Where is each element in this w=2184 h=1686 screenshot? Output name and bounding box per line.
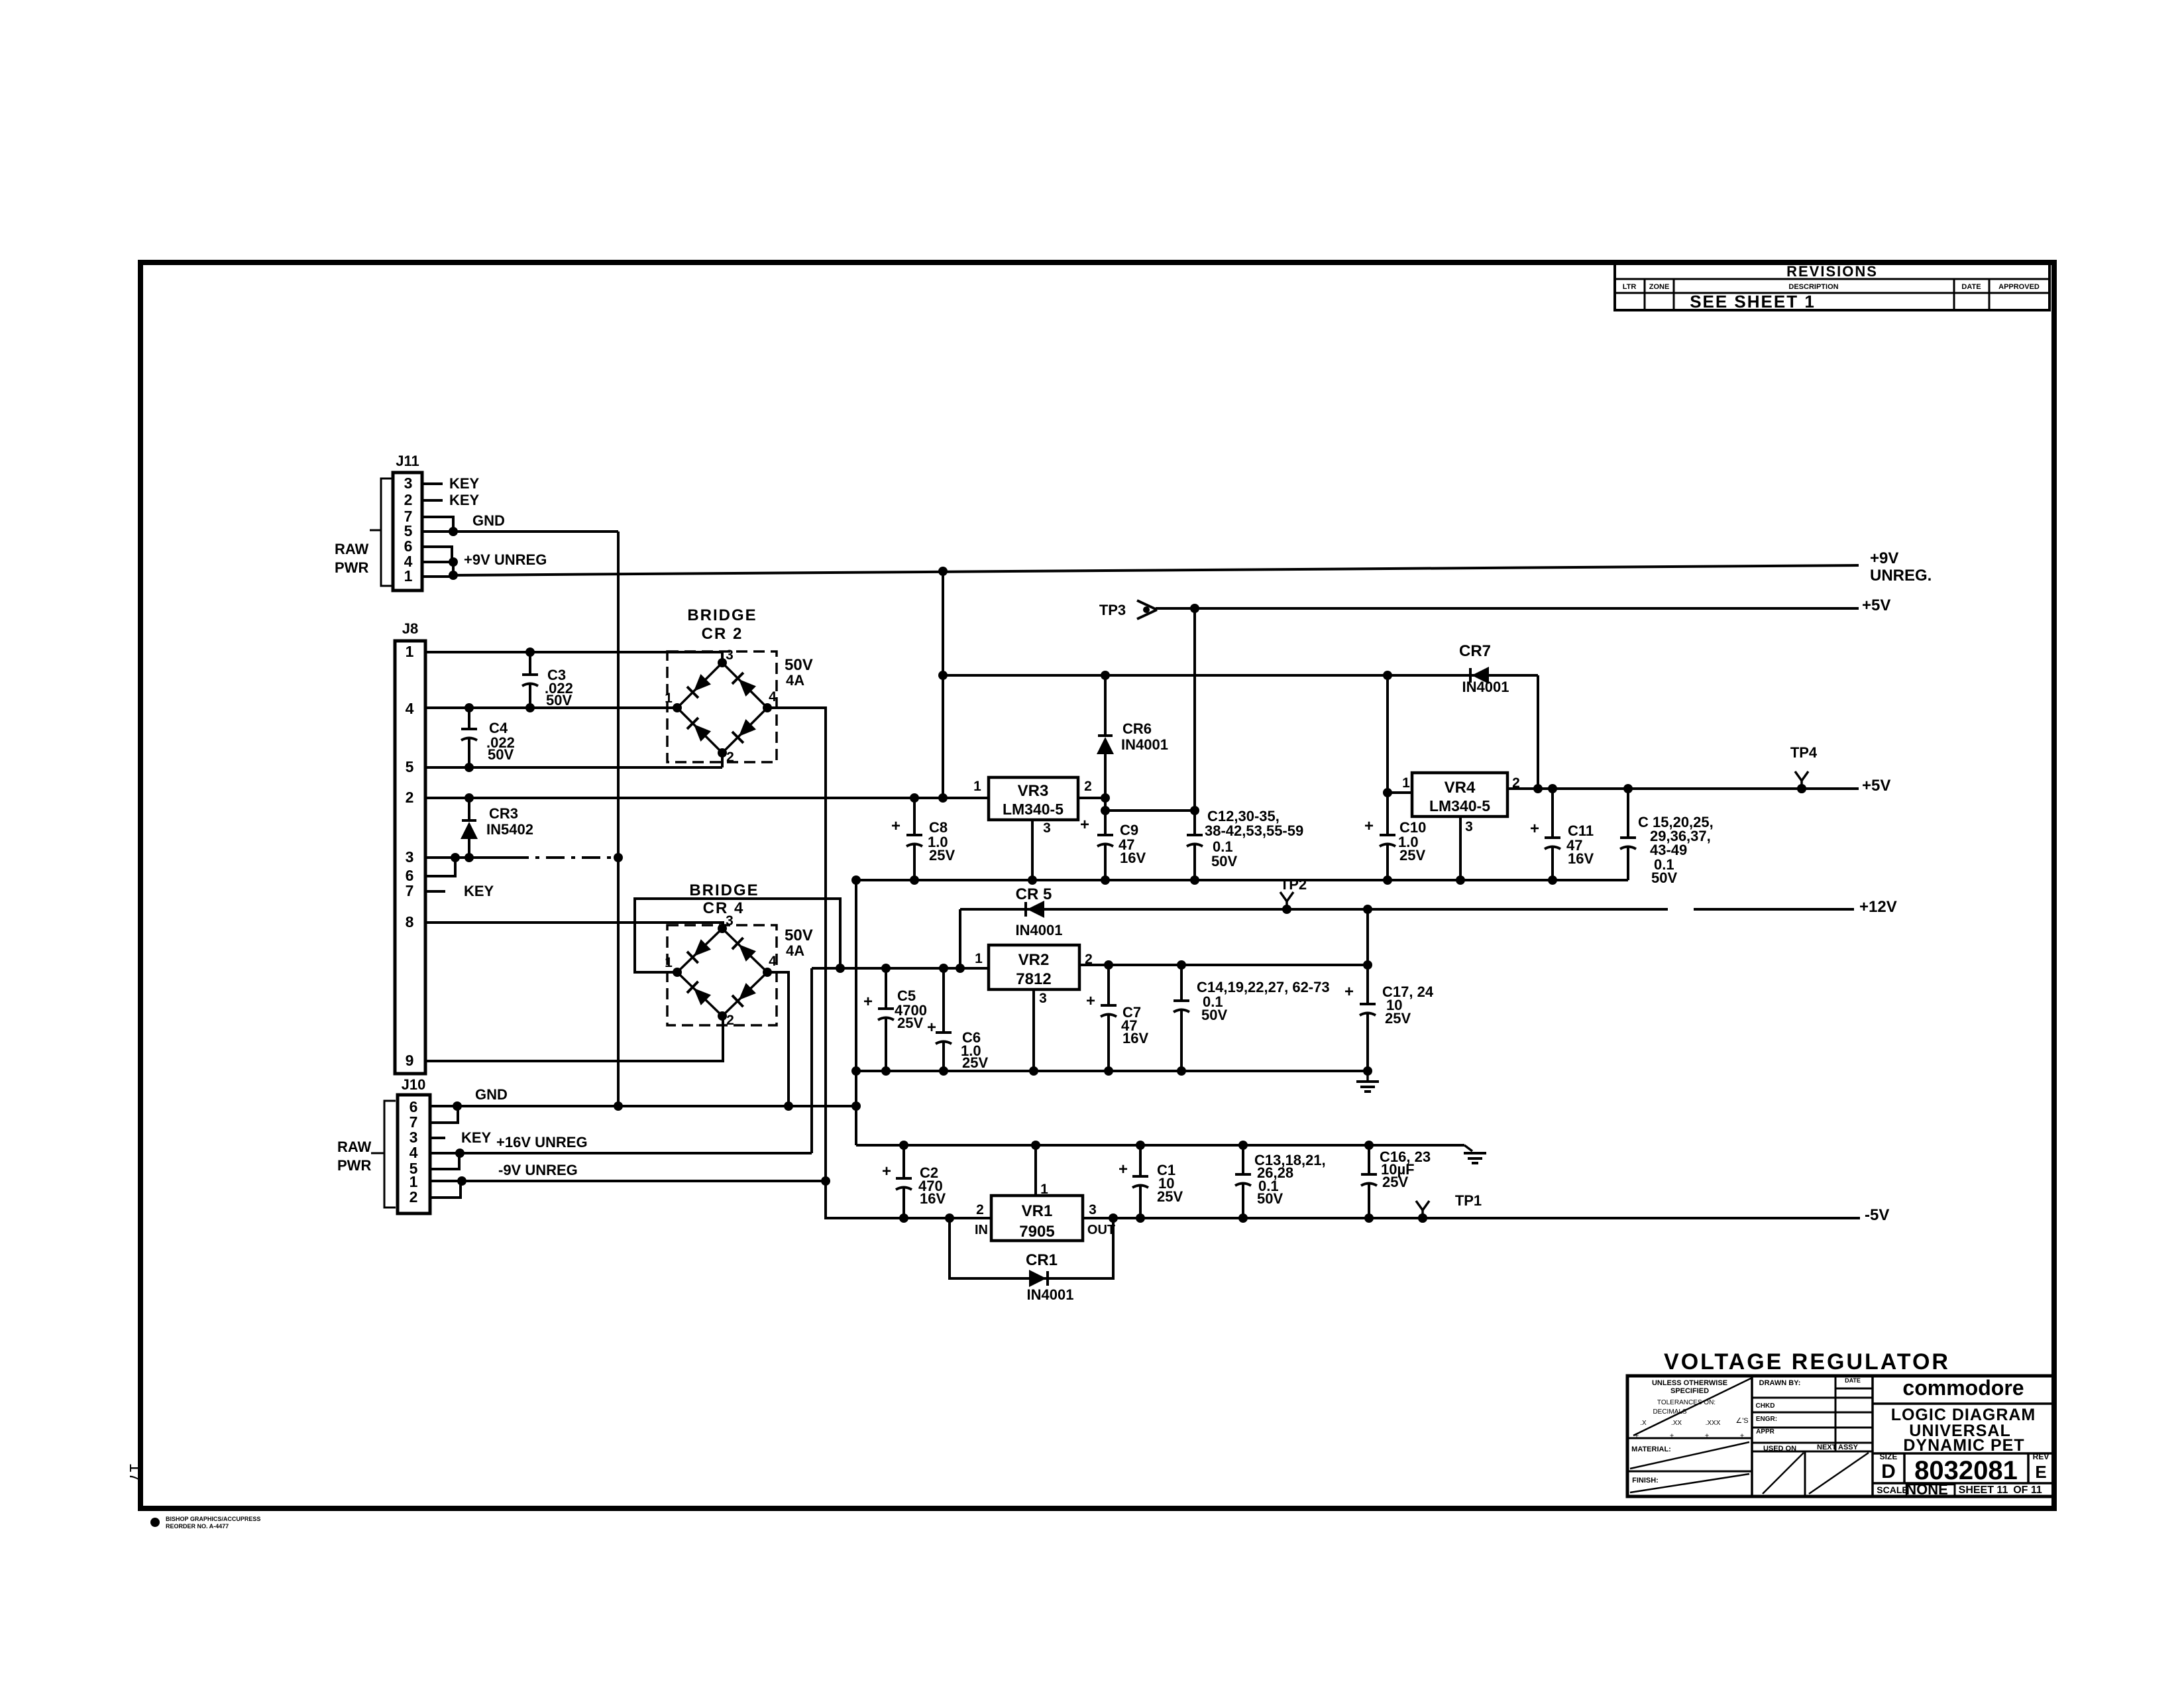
wire VR2 input line [812,967,989,970]
svg-text:+5V: +5V [1862,596,1890,614]
J11 pin 1 number [404,567,413,585]
svg-text:KEY: KEY [464,883,494,899]
capacitor C8 [906,798,922,880]
svg-text:3: 3 [726,913,734,928]
wire J11 pin4-pin1 link [452,562,455,577]
J10 pin 6 number [409,1098,418,1115]
capacitor C13 (0.1uF group) [1235,1145,1251,1218]
svg-text:IN: IN [975,1223,988,1237]
label CR1 IN4001 [1026,1251,1073,1303]
wire J8 pin 5 to bridge CR2 [425,753,722,767]
svg-text:DATE: DATE [1961,283,1981,291]
wire VR1 pin1 stem [1034,1145,1037,1196]
junction dots VR2 output [1104,960,1372,970]
svg-text:1: 1 [665,691,673,706]
label VR2 pin 3 [1039,991,1047,1006]
label C11 polarity + [1530,820,1539,838]
svg-text:USED ON: USED ON [1763,1445,1796,1453]
svg-text:UNREG.: UNREG. [1870,567,1932,585]
wire J8 pin 8 to bridge CR4 [425,923,723,928]
svg-text:+: + [927,1019,936,1037]
svg-text:+: + [1364,817,1374,835]
label C7 47 16V [1121,1004,1148,1046]
label CR4 pin 2 [726,1013,734,1028]
svg-text:∠'S: ∠'S [1735,1417,1748,1425]
junction dots +5V output [1533,784,1806,793]
svg-text:1: 1 [1402,775,1410,791]
wire J10 pin 7 to pin 6 [430,1106,458,1123]
svg-text:SIZE: SIZE [1880,1452,1898,1461]
bridge rectifier CR2 [667,651,777,762]
J8 pin 8 number [406,913,414,930]
svg-text:+: + [1080,816,1089,834]
label +9V UNREG right [1870,549,1932,585]
label VR4 pin 3 [1465,819,1473,834]
J11 pin 5 number [404,522,413,539]
svg-text:4: 4 [769,689,777,704]
svg-text:50V: 50V [1651,870,1677,886]
svg-text:+9V: +9V [1870,549,1898,567]
label C12 group [1205,808,1303,870]
wire J11 pin 1 stub [422,575,453,578]
svg-text:RAW: RAW [337,1139,372,1155]
label BRIDGE CR2 [687,606,757,643]
label +5V right (VR4) [1862,777,1890,795]
wire ground bus to -5V section [856,1144,1464,1147]
label C7 polarity + [1086,992,1095,1010]
svg-text:4A: 4A [786,672,804,689]
wire J8 pin 3 to GND bus [425,856,618,859]
label CR3 IN5402 [486,805,533,838]
svg-text:TP2: TP2 [1280,876,1307,893]
connector J10 [398,1076,430,1213]
wire J10 pin 5 to pin 4 [430,1153,459,1169]
ground symbol (+12V section) [1356,1071,1379,1092]
svg-text:NEXT ASSY: NEXT ASSY [1817,1443,1859,1451]
J8 pin 5 number [406,758,414,775]
title block scale row [1877,1481,2042,1498]
title block drawn-by text [1756,1377,1861,1453]
wire VR3 output [1078,797,1105,799]
wire +12V section ground rail [856,1070,1368,1072]
svg-text:SHEET 11: SHEET 11 [1959,1485,2008,1496]
svg-text:CR 2: CR 2 [702,625,743,643]
capacitor C17,24 [1360,909,1376,1071]
svg-text:7905: 7905 [1019,1223,1054,1241]
label VR1 pin 1 [1040,1182,1048,1197]
label C1 10 25V [1157,1162,1183,1205]
diode CR7 [1470,667,1489,684]
svg-text:.XXX: .XXX [1706,1420,1721,1427]
junction dots -5V line [1109,1213,1427,1223]
wire VR3 ground stem [1031,820,1034,880]
svg-text:J11: J11 [396,453,419,469]
svg-text:IN4001: IN4001 [1121,736,1168,753]
J10 pin 1 number [409,1173,418,1190]
svg-text:9: 9 [406,1052,414,1069]
svg-text:LTR: LTR [1623,283,1637,291]
svg-text:VR4: VR4 [1445,779,1476,797]
label VR4 pin 1 [1402,775,1410,791]
wire +5V rail (TP3) [1156,607,1859,610]
wire J11 pin 6 to pin 4 [422,547,452,562]
junction dots VR3 input line [910,793,948,803]
junction dots VR3 output [1101,793,1199,815]
label C6 polarity + [927,1019,936,1037]
J11 pin 3 number [404,475,413,492]
J10 pin 3 number [409,1129,418,1146]
label C8 1.0 25V [928,819,955,864]
svg-text:LM340-5: LM340-5 [1429,797,1490,815]
junction dots -5V section ground bus [899,1141,1374,1150]
svg-text:+: + [1119,1160,1128,1178]
svg-text:+9V UNREG: +9V UNREG [464,551,547,568]
svg-text:50V: 50V [488,746,514,763]
svg-text:CHKD: CHKD [1756,1402,1775,1410]
wire GND bus vertical [617,532,620,1106]
svg-text:APPROVED: APPROVED [1998,283,2040,291]
label VR1 pin 2 IN [975,1202,988,1237]
svg-text:+: + [1530,820,1539,838]
junction dots CR6-CR7 line [938,671,1392,680]
revision entry SEE SHEET 1 [1690,292,1816,311]
drawing title VOLTAGE REGULATOR [1664,1349,1950,1375]
label KEY (J8 pin7) [464,883,494,899]
junction dots VR1 input [899,1213,954,1223]
J11 bracket [370,478,392,586]
capacitor C15 (0.1uF group) [1620,789,1636,880]
svg-text:50V: 50V [785,927,813,944]
diode CR6 with C9 branch [1097,675,1114,880]
wire J10 pin 6 GND stub [430,1105,457,1107]
label C5 4700 25V [895,987,927,1031]
label C8 polarity + [891,817,901,835]
label C5 polarity + [863,993,873,1011]
J11 pin 6 number [404,537,413,555]
svg-text:APPR: APPR [1756,1428,1775,1435]
label KEY (J11 pin3) [449,475,480,492]
title block tolerances text [1631,1379,1749,1485]
junction dots +12V rail [1363,905,1372,914]
J10 pin 2 number [409,1188,418,1206]
bridge rectifier CR4 [667,924,777,1025]
svg-text:KEY: KEY [461,1129,492,1146]
svg-text:CR 4: CR 4 [703,899,745,917]
svg-text:4: 4 [769,954,777,969]
wire +12V rail [960,908,1854,911]
svg-text:50V: 50V [1201,1007,1227,1023]
J10 pin 7 number [409,1113,418,1131]
wire J8 pin 6 to pin 3 [425,858,455,876]
svg-text:2: 2 [1084,779,1092,794]
wire J8 pin 7 key stub [425,890,445,893]
svg-text:50V: 50V [546,692,572,708]
svg-text:ENGR:: ENGR: [1756,1416,1777,1423]
svg-text:D: D [1881,1461,1896,1483]
label C1 polarity + [1119,1160,1128,1178]
svg-text:+: + [891,817,901,835]
ground symbol (-5V section) [1464,1145,1486,1163]
svg-text:4: 4 [409,1144,418,1161]
wire CR2 output to -9V net [767,708,991,1218]
label VR3 pin 3 [1043,820,1051,836]
J10 pin 5 number [409,1160,418,1177]
diode CR5 [1026,901,1044,918]
capacitor C11 [1545,789,1560,880]
svg-text:38-42,53,55-59: 38-42,53,55-59 [1205,822,1303,839]
svg-text:OUT: OUT [1087,1223,1115,1237]
wire GND riser x1292 [855,880,857,1145]
svg-text:CR7: CR7 [1459,642,1491,660]
svg-text:+: + [1086,992,1095,1010]
label KEY (J11 pin2) [449,492,480,508]
svg-text:J8: J8 [402,620,418,637]
svg-text:ZONE: ZONE [1649,283,1670,291]
wire J10 pin 2 to pin 1 [430,1181,461,1198]
svg-text:+: + [863,993,873,1011]
svg-text:7: 7 [406,882,414,899]
svg-text:3: 3 [726,647,734,663]
svg-text:2: 2 [404,491,413,508]
svg-text:25V: 25V [1399,847,1425,864]
wire +5V output rail (VR4) [1507,787,1859,790]
label CR4 pin 4 [769,954,777,969]
junction dots +12V ground rail [851,1066,1372,1076]
svg-text:1: 1 [404,567,413,585]
sheet border frame [140,262,2054,1508]
J8 pin 9 number [406,1052,414,1069]
svg-text:.X: .X [1640,1420,1647,1427]
svg-text:1: 1 [973,779,981,794]
capacitor C12 (0.1uF group) [1187,608,1203,880]
svg-text:2: 2 [726,1013,734,1028]
capacitor C3 [522,652,538,708]
wire J11 pin 2 key stub [422,499,443,502]
label CR2 pin 1 [665,691,673,706]
junction dots J10 stubs [455,1149,830,1186]
svg-text:SEE SHEET 1: SEE SHEET 1 [1690,292,1816,311]
J8 pin 2 number [406,789,414,806]
wire VR2 output [1079,964,1368,966]
capacitor C10 [1380,675,1395,880]
svg-text:3: 3 [404,475,413,492]
label +12V right [1859,898,1897,916]
label CR2 pin 3 [726,647,734,663]
svg-text:PWR: PWR [335,559,368,576]
svg-text:16V: 16V [920,1190,946,1207]
svg-text:DATE: DATE [1845,1377,1861,1384]
svg-text:BRIDGE: BRIDGE [687,606,757,624]
junction dots +5V ground rail [851,875,1557,885]
svg-text:CR3: CR3 [489,805,518,822]
wire CR4 minus output to ground line [767,972,789,1106]
label +9V UNREG (J11) [464,551,547,568]
svg-text:25V: 25V [929,847,955,864]
wire VR4 ground stem [1459,816,1462,880]
J8 pin 3 number [406,848,414,866]
wire J10 pin 1 -9V line [430,1180,826,1182]
svg-text:+12V: +12V [1859,898,1897,916]
title block size cell [1880,1452,1898,1483]
wire J8 pin 4 to bridge CR2 [425,706,677,709]
svg-text:KEY: KEY [449,475,480,492]
svg-text:-9V UNREG: -9V UNREG [498,1162,578,1178]
J8 pin 6 number [406,867,414,884]
capacitor C14 (0.1uF group) [1174,965,1189,1071]
test point TP1 [1416,1192,1482,1223]
svg-text:VR3: VR3 [1018,782,1049,800]
svg-text:BRIDGE: BRIDGE [689,881,759,899]
wire VR1 output -5V [1083,1217,1860,1219]
label C17,24 10 25V [1382,983,1434,1027]
label C11 47 16V [1566,822,1594,867]
label C3 .022 50V [545,667,573,708]
wire +9V UNREG rail [453,565,1859,575]
svg-text:E: E [2035,1462,2046,1482]
svg-text:IN5402: IN5402 [486,821,533,838]
capacitor C1 [1132,1145,1148,1218]
svg-text:IN4001: IN4001 [1027,1286,1074,1303]
label CR5 IN4001 [1016,885,1063,938]
J11 pin 7 number [404,508,413,525]
svg-text:17: 17 [126,1463,146,1483]
label C17 polarity + [1344,983,1354,1001]
wire VR4 input stub [1388,791,1412,794]
svg-text:PWR: PWR [337,1157,371,1174]
svg-text:±: ± [1740,1432,1744,1440]
svg-text:3: 3 [1089,1202,1097,1217]
label VR3 pin 2 [1084,779,1092,794]
svg-text:+: + [882,1162,891,1180]
svg-text:DRAWN BY:: DRAWN BY: [1759,1379,1801,1387]
svg-text:VOLTAGE REGULATOR: VOLTAGE REGULATOR [1664,1349,1950,1375]
svg-text:50V: 50V [1211,853,1237,870]
svg-text:1: 1 [406,643,414,660]
capacitor C6 [936,968,952,1071]
svg-text:CR6: CR6 [1122,720,1152,737]
svg-text:16V: 16V [1120,850,1146,866]
svg-text:VR2: VR2 [1018,951,1050,969]
J11 pin 4 number [404,553,413,570]
svg-text:4: 4 [406,700,414,717]
svg-text:2: 2 [976,1202,984,1217]
junction dots J8 area [451,647,623,862]
label GND (J11) [472,512,505,529]
J8 pin 4 number [406,700,414,717]
junction dots VR2 input [836,964,965,973]
connector J11 [393,453,422,590]
test point TP2 [1280,876,1307,914]
wire VR2 ground stem [1032,989,1035,1071]
capacitor C4 [461,708,477,767]
svg-text:25V: 25V [1157,1188,1183,1205]
svg-text:±: ± [1670,1432,1674,1440]
wire J11 pin 5 GND out [422,530,618,533]
svg-text:TP1: TP1 [1455,1192,1482,1209]
capacitor C16,23 [1361,1145,1377,1218]
drawing number 8032081 [1914,1456,2018,1485]
svg-text:IN4001: IN4001 [1016,922,1063,938]
junction dot C12 top [1190,604,1199,613]
svg-text:-5V: -5V [1865,1206,1889,1224]
capacitor C2 [896,1145,912,1218]
sheet number 17 (left margin) [126,1463,146,1483]
svg-text:7812: 7812 [1016,970,1051,988]
diode CR3 [461,798,478,858]
svg-text:±: ± [1705,1432,1709,1440]
label CR4 50V 4A [785,927,813,959]
wire CR4 plus output loop [635,899,840,972]
svg-text:LM340-5: LM340-5 [1003,801,1064,818]
label VR1 pin 3 OUT [1087,1202,1115,1237]
label C16,23 10uF 25V [1380,1149,1431,1190]
svg-text:16V: 16V [1568,850,1594,867]
connector J8 [395,620,425,1074]
label RAW PWR (J10) [337,1139,372,1174]
wire CR7 riser to +5V out [1537,675,1539,789]
svg-text:3: 3 [1465,819,1473,834]
svg-text:3: 3 [406,848,414,866]
svg-text:25V: 25V [897,1015,923,1031]
svg-text:SCALE: SCALE [1877,1485,1908,1495]
label CR4 pin 1 [665,955,673,970]
svg-text:1: 1 [975,951,983,966]
corner fine print [150,1516,260,1530]
svg-text:2: 2 [406,789,414,806]
svg-text:REV: REV [2033,1452,2049,1461]
diode CR1 [1029,1270,1048,1287]
label CR7 IN4001 [1459,642,1509,695]
wire J10 pin 3 key stub [430,1137,445,1139]
svg-text:+: + [1344,983,1354,1001]
label -9V UNREG [498,1162,578,1178]
wire CR5 riser to VR2 input [959,909,961,968]
revisions table [1615,262,2049,310]
label RAW PWR (J11) [335,541,369,576]
svg-text:J10: J10 [402,1076,426,1093]
label C4 .022 50V [486,720,515,763]
label C9 47 16V [1119,822,1146,866]
svg-text:CR1: CR1 [1026,1251,1058,1269]
svg-text:CR 5: CR 5 [1016,885,1052,903]
svg-text:2: 2 [726,750,734,765]
svg-text:DYNAMIC PET: DYNAMIC PET [1903,1436,2024,1455]
svg-text:GND: GND [475,1086,508,1103]
label +5V right (TP3 rail) [1862,596,1890,614]
label VR2 pin 1 [975,951,983,966]
svg-text:25V: 25V [1385,1010,1411,1027]
label C6 1.0 25V [961,1029,988,1071]
regulator VR4 [1412,773,1507,816]
regulator VR2 [989,945,1079,989]
svg-text:50V: 50V [785,656,813,674]
wire J11 pin 4 stub [422,561,453,563]
svg-text:KEY: KEY [449,492,480,508]
svg-text:TOLERANCES ON:: TOLERANCES ON: [1657,1399,1716,1406]
J8 pin 7 number [406,882,414,899]
svg-text:16V: 16V [1122,1030,1148,1046]
wire J8 pin 9 to bridge CR4 [425,1016,723,1061]
svg-text:25V: 25V [962,1054,988,1071]
label VR4 pin 2 [1512,775,1520,791]
J10 pin 4 number [409,1144,418,1161]
svg-text:VR1: VR1 [1022,1202,1053,1220]
label -5V right [1865,1206,1889,1224]
svg-text:OF 11: OF 11 [2013,1485,2042,1496]
svg-text:4A: 4A [786,942,804,959]
test point TP3 [1099,600,1157,619]
label C9 polarity + [1080,816,1089,834]
